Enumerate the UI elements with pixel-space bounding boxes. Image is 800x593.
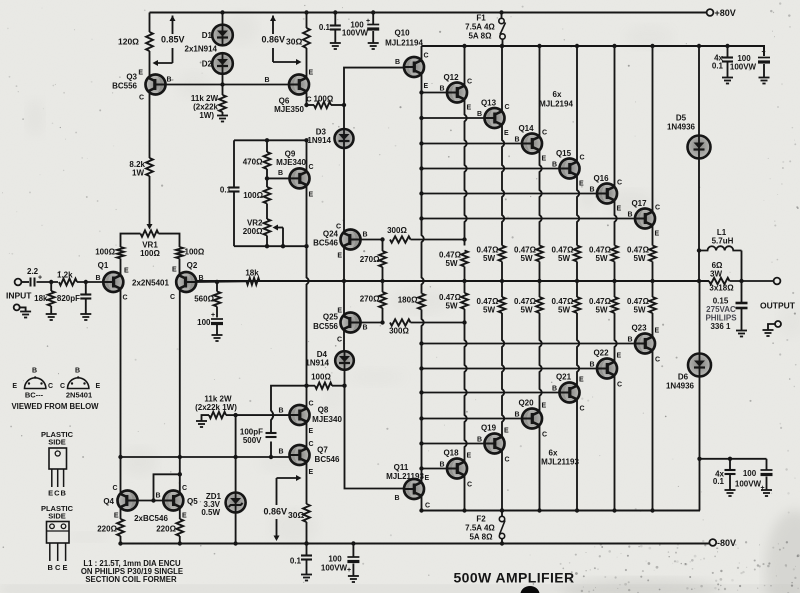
svg-text:120Ω: 120Ω xyxy=(118,37,139,47)
svg-text:Q12: Q12 xyxy=(443,73,459,82)
svg-text:180Ω: 180Ω xyxy=(398,296,418,305)
node D5 bus xyxy=(697,279,701,283)
svg-text:820pF: 820pF xyxy=(57,294,80,303)
svg-text:+: + xyxy=(347,567,351,574)
diode D1 xyxy=(212,25,233,46)
svg-text:E: E xyxy=(579,377,584,384)
node 270R bot xyxy=(380,320,384,324)
wire 100u gnd top xyxy=(372,31,374,43)
svg-text:6x: 6x xyxy=(553,90,562,99)
svg-text:E: E xyxy=(655,231,660,238)
node ZD1 rail xyxy=(233,541,237,545)
resistor 0.47R top Q16 xyxy=(611,246,618,262)
node 270R top xyxy=(380,237,384,241)
wire Q2 collector xyxy=(179,289,181,457)
wire bus to 0.47R bottom Q18 xyxy=(464,281,466,293)
node 100u rail bot xyxy=(351,541,355,545)
wire Q9 C xyxy=(306,140,308,172)
svg-text:MJE340: MJE340 xyxy=(312,415,342,424)
svg-text:220Ω: 220Ω xyxy=(97,525,117,534)
node box bottom wiper xyxy=(281,244,285,248)
ground 11k top xyxy=(217,116,228,122)
ground zobel xyxy=(736,331,747,337)
node base bus npn rung 2 xyxy=(419,141,423,145)
wire Q2b to 18k xyxy=(196,280,246,283)
svg-text:B: B xyxy=(96,275,101,282)
wire base to Q5 C xyxy=(154,474,180,500)
diode D2 xyxy=(212,53,233,74)
wire PNP collector rail xyxy=(422,510,701,512)
svg-text:C: C xyxy=(542,130,547,137)
svg-text:30Ω: 30Ω xyxy=(286,37,302,47)
capacitor 4x 0.1 bottom xyxy=(725,470,736,474)
svg-text:6x: 6x xyxy=(549,449,558,458)
svg-text:Q25: Q25 xyxy=(323,313,339,322)
resistor 180R xyxy=(418,294,425,310)
wire 100R ends xyxy=(307,104,315,106)
wire to Q10 base xyxy=(344,68,405,105)
svg-text:5W: 5W xyxy=(521,254,533,263)
svg-text:E: E xyxy=(542,403,547,410)
svg-text:C: C xyxy=(617,180,622,187)
svg-text:30Ω: 30Ω xyxy=(288,510,304,520)
capacitor 100pF xyxy=(266,433,277,437)
node Q24 bus xyxy=(342,279,346,283)
terminal -80V xyxy=(709,539,716,546)
svg-text:0.5W: 0.5W xyxy=(201,508,220,517)
svg-text:100Ω: 100Ω xyxy=(185,248,205,257)
svg-text:270Ω: 270Ω xyxy=(360,295,380,304)
transistor Q5 xyxy=(163,491,183,511)
transistor Q13 xyxy=(485,108,505,128)
node F1 top xyxy=(499,10,503,14)
transistor Q7 xyxy=(290,445,310,465)
svg-text:Q14: Q14 xyxy=(518,124,534,133)
svg-text:200Ω: 200Ω xyxy=(243,227,263,236)
wire VR1 wiper xyxy=(149,176,151,226)
node F2 bottom xyxy=(500,541,504,545)
svg-text:5.7uH: 5.7uH xyxy=(712,237,734,246)
wire Q1 collector xyxy=(120,289,122,457)
ground 100u top xyxy=(368,43,379,49)
svg-text:C: C xyxy=(307,97,312,104)
wire Q20 collector xyxy=(539,425,541,510)
svg-text:C: C xyxy=(309,441,314,448)
wire Q18 base rung xyxy=(422,468,448,470)
wire -80V rail xyxy=(121,542,709,544)
resistor 0.47R top Q13 xyxy=(499,246,506,262)
wire Q19 emitter xyxy=(502,313,504,437)
wire Q21 base rung xyxy=(422,392,560,394)
wire Q14 base rung xyxy=(422,143,523,145)
svg-text:Q18: Q18 xyxy=(443,449,459,458)
capacitor 0.1 top xyxy=(330,26,341,30)
svg-text:100Ω: 100Ω xyxy=(243,191,263,200)
svg-text:MJL21193: MJL21193 xyxy=(541,458,579,467)
wire Q20 base rung xyxy=(422,418,523,420)
svg-text:B: B xyxy=(75,368,80,375)
node Q12 rail xyxy=(462,44,466,48)
node Q7b Q2c xyxy=(178,455,182,459)
svg-text:E: E xyxy=(504,428,509,435)
wire D2 to base wire xyxy=(222,74,224,85)
svg-text:C: C xyxy=(505,104,510,111)
svg-text:5W: 5W xyxy=(521,306,533,315)
svg-text:100VW: 100VW xyxy=(342,29,369,38)
resistor 560R xyxy=(214,292,221,307)
svg-text:C: C xyxy=(139,95,144,102)
svg-text:Q4: Q4 xyxy=(103,497,114,506)
wire Q12 collector xyxy=(464,46,466,86)
svg-text:B: B xyxy=(278,449,283,456)
wire Q23 base rung xyxy=(422,343,636,345)
svg-text:+80V: +80V xyxy=(715,8,736,18)
node Q17 rail xyxy=(650,44,654,48)
node 0.1 rail top xyxy=(333,10,337,14)
svg-text:100Ω: 100Ω xyxy=(95,248,115,257)
wire D4 to node xyxy=(344,370,346,386)
fuse F2 xyxy=(499,516,505,538)
svg-text:BC546: BC546 xyxy=(315,455,340,464)
svg-text:E: E xyxy=(337,308,342,315)
resistor 0.47R bottom Q23 xyxy=(649,297,656,313)
resistor 100R bias xyxy=(264,187,271,204)
transistor Q6 xyxy=(289,75,309,95)
wire Q13 base rung xyxy=(422,117,485,119)
svg-text:100: 100 xyxy=(743,469,757,478)
svg-text:B: B xyxy=(627,212,632,219)
wire Q14 emitter xyxy=(540,150,542,245)
svg-text:+: + xyxy=(38,275,42,282)
svg-text:E: E xyxy=(467,105,472,112)
svg-text:5W: 5W xyxy=(596,254,608,263)
pinout 2N5401 semicircle xyxy=(68,378,89,389)
label 0.86V bottom xyxy=(263,507,287,516)
svg-text:-: - xyxy=(761,465,764,474)
wire Q3 base to Q6 base xyxy=(166,84,289,86)
wire Q14 collector xyxy=(539,46,541,137)
svg-text:Q5: Q5 xyxy=(187,497,198,506)
wire Q22 emitter xyxy=(615,313,617,362)
resistor 30R bottom xyxy=(303,504,310,522)
node Q7b Q1c xyxy=(118,455,122,459)
svg-text:1W): 1W) xyxy=(199,111,214,120)
wire VR2 box bottom xyxy=(234,245,307,247)
capacitor 100u bot xyxy=(347,557,359,562)
svg-text:100: 100 xyxy=(328,555,342,564)
svg-text:E: E xyxy=(114,513,119,520)
transistor Q1 xyxy=(103,272,123,292)
wire VR1 left xyxy=(121,234,141,247)
zener ZD1 xyxy=(226,493,246,513)
transistor Q11 xyxy=(404,479,424,499)
wire Q16 emitter xyxy=(615,200,617,245)
wire 100u gnd bot xyxy=(352,564,354,576)
svg-text:SIDE: SIDE xyxy=(48,438,66,447)
resistor 0.47R top Q14 xyxy=(536,246,543,262)
node Q20 rail xyxy=(537,508,541,512)
wire Q22 collector xyxy=(614,375,616,510)
wire bus to 0.47R bottom Q19 xyxy=(501,281,503,297)
svg-text:300Ω: 300Ω xyxy=(387,226,407,235)
svg-text:B: B xyxy=(589,362,594,369)
svg-text:MJE340: MJE340 xyxy=(276,158,306,167)
wire output bus xyxy=(196,280,709,282)
node box top 470R xyxy=(265,138,269,142)
node Q2 base 560R xyxy=(215,280,219,284)
wire 100u stub top xyxy=(372,13,374,25)
svg-text:1.2k: 1.2k xyxy=(57,271,73,280)
svg-text:Q23: Q23 xyxy=(631,324,647,333)
node D2 Q3 base xyxy=(220,82,224,86)
svg-text:0.1: 0.1 xyxy=(713,477,725,486)
wire 0.47R top Q12 to bus xyxy=(464,267,466,282)
wire Q21 collector xyxy=(576,399,578,510)
svg-text:MJL21194: MJL21194 xyxy=(385,39,423,48)
svg-text:B: B xyxy=(589,187,594,194)
node 270R bus xyxy=(380,279,384,283)
svg-text:1W: 1W xyxy=(132,169,144,178)
svg-text:Q1: Q1 xyxy=(98,261,109,270)
wire 100u br stub xyxy=(766,459,768,470)
svg-text:+: + xyxy=(761,485,765,492)
svg-text:C: C xyxy=(336,224,341,231)
wire D6 bottom xyxy=(699,377,701,511)
node base bus npn rung 3 xyxy=(419,166,423,170)
svg-text:0.1: 0.1 xyxy=(712,62,724,71)
svg-text:C: C xyxy=(617,382,622,389)
wire zobel gnd xyxy=(741,308,743,330)
svg-text:+: + xyxy=(366,18,370,25)
wire Q19 collector xyxy=(501,450,503,510)
wire 4x0.1 top gnd xyxy=(727,62,729,78)
node F2 top xyxy=(500,508,504,512)
wire Q1 emitter xyxy=(120,259,122,276)
svg-text:BC556: BC556 xyxy=(313,322,338,331)
svg-text:1N4936: 1N4936 xyxy=(667,123,696,132)
svg-text:+: + xyxy=(762,49,766,56)
node base bus pnp rung 3 xyxy=(419,390,423,394)
svg-text:5A 8Ω: 5A 8Ω xyxy=(468,32,492,41)
svg-text:0.86V: 0.86V xyxy=(264,507,288,517)
svg-text:C: C xyxy=(424,53,429,60)
wire 4x0.1 top stub xyxy=(727,46,729,58)
wire Q23 collector xyxy=(652,350,654,510)
svg-text:E: E xyxy=(309,192,314,199)
node zobel xyxy=(739,279,743,283)
svg-text:B: B xyxy=(514,412,519,419)
wire Q24 base rung xyxy=(360,239,383,241)
node 11k mid xyxy=(233,413,237,417)
svg-text:C: C xyxy=(182,485,187,492)
wire 100R vas bot ends xyxy=(307,385,316,387)
node D1 rail xyxy=(220,10,224,14)
transistor Q16 xyxy=(597,184,617,204)
wire F2 ends xyxy=(501,511,503,517)
svg-text:B: B xyxy=(552,162,557,169)
svg-text:C: C xyxy=(655,205,660,212)
diode D3 xyxy=(335,129,354,148)
svg-text:5W: 5W xyxy=(446,259,458,268)
node Q15 bus xyxy=(575,279,579,283)
resistor 100R Q1 emitter xyxy=(117,247,124,259)
svg-text:MJL2194: MJL2194 xyxy=(539,100,573,109)
node Q19 rail xyxy=(500,508,504,512)
ground 0.1 top xyxy=(330,43,341,49)
wire 100u to gnd xyxy=(216,325,218,335)
svg-text:C: C xyxy=(309,401,314,408)
wire 11k stub xyxy=(222,85,224,96)
node D4 100R xyxy=(342,384,346,388)
wire Q25 C to D4 xyxy=(343,329,345,356)
svg-text:B: B xyxy=(477,437,482,444)
wire input gnd stub xyxy=(20,307,26,311)
node Q4Q5 base xyxy=(151,498,155,502)
wire Q10 C xyxy=(421,46,423,61)
svg-text:E: E xyxy=(309,469,314,476)
wire Q24 E xyxy=(343,246,345,281)
wire after 2.2 xyxy=(37,281,59,283)
svg-text:B: B xyxy=(477,111,482,118)
capacitor 0.1 bot xyxy=(301,556,312,560)
wire 100R stub xyxy=(266,178,268,187)
node Q13 bus xyxy=(500,279,504,283)
svg-text:MJE350: MJE350 xyxy=(274,105,304,114)
node Q14 bus xyxy=(537,279,541,283)
node base bus npn rung 5 xyxy=(419,216,423,220)
wire Q16 base rung xyxy=(422,193,598,195)
node D5 rail xyxy=(697,44,701,48)
svg-text:Q10: Q10 xyxy=(394,29,410,38)
wire Q6 C stub xyxy=(306,91,308,105)
svg-text:D6: D6 xyxy=(678,373,689,382)
svg-text:2x1N914: 2x1N914 xyxy=(185,45,218,54)
svg-text:3W: 3W xyxy=(710,270,722,279)
svg-text:B: B xyxy=(552,386,557,393)
svg-text:E: E xyxy=(172,267,177,274)
label 0.85V xyxy=(160,35,183,44)
svg-text:BC---: BC--- xyxy=(25,391,44,400)
svg-text:C: C xyxy=(112,485,117,492)
wire Q25 E xyxy=(343,281,345,317)
resistor 30R top xyxy=(303,28,310,48)
svg-text:Q8: Q8 xyxy=(318,406,329,415)
transistor Q20 xyxy=(522,409,542,429)
ground 100u xyxy=(212,335,223,341)
svg-text:5W: 5W xyxy=(634,254,646,263)
ground input 18k xyxy=(46,314,57,320)
svg-text:B: B xyxy=(167,77,172,84)
node Q14 rail xyxy=(537,44,541,48)
svg-text:Q20: Q20 xyxy=(518,399,534,408)
svg-text:(2x22k 1W): (2x22k 1W) xyxy=(195,403,237,412)
svg-text:0.1: 0.1 xyxy=(290,557,302,566)
wire Q18 collector xyxy=(464,475,466,510)
wire Q8 E to Q7 C xyxy=(306,422,308,449)
resistor 0.47R top Q15 xyxy=(574,246,581,262)
svg-text:ECB: ECB xyxy=(48,489,67,498)
wire Q17 collector xyxy=(652,46,654,212)
svg-text:Q11: Q11 xyxy=(394,463,409,472)
svg-text:Q21: Q21 xyxy=(556,373,572,382)
node base bus npn rung 1 xyxy=(419,116,423,120)
svg-text:B: B xyxy=(514,137,519,144)
svg-text:100Ω: 100Ω xyxy=(311,373,331,382)
arrow 0.86V top xyxy=(272,16,274,35)
wire box left lower xyxy=(233,192,235,247)
svg-text:VIEWED FROM BELOW: VIEWED FROM BELOW xyxy=(11,402,99,411)
resistor 0.47R bottom Q22 xyxy=(611,297,618,313)
node caps 4x top xyxy=(725,44,729,48)
svg-text:B: B xyxy=(394,495,399,502)
node 0.1 rail bot xyxy=(304,541,308,545)
wire Q19 base rung xyxy=(422,443,485,445)
terminal output jack xyxy=(775,321,781,327)
wire 270R top stubs xyxy=(382,240,384,252)
node base bus pnp rung 4 xyxy=(419,366,423,370)
svg-text:2xBC546: 2xBC546 xyxy=(134,514,168,523)
capacitor 0.1 box xyxy=(229,188,240,192)
diode D6 xyxy=(688,354,711,377)
resistor 270R bottom xyxy=(379,292,386,308)
svg-text:+: + xyxy=(211,312,215,319)
wire Q16 collector xyxy=(614,46,616,187)
wire Q4 220 rail xyxy=(120,536,122,544)
fuse F1 xyxy=(499,18,506,39)
svg-text:Q24: Q24 xyxy=(323,230,339,239)
transistor Q24 xyxy=(341,230,361,250)
svg-text:500V: 500V xyxy=(243,436,262,445)
resistor 0.47R bottom Q20 xyxy=(536,297,543,313)
wire 18k to gnd xyxy=(50,282,52,291)
wire Q25 base rung xyxy=(360,322,383,324)
svg-text:E: E xyxy=(424,83,429,90)
node Q6 collector xyxy=(304,103,308,107)
node Q21 rail xyxy=(575,508,579,512)
svg-text:Q17: Q17 xyxy=(631,199,647,208)
capacitor 100u top right xyxy=(758,58,770,63)
resistor 270R top xyxy=(379,251,386,267)
svg-text:1N914: 1N914 xyxy=(305,359,329,368)
capacitor 100u feedback xyxy=(211,319,223,324)
svg-text:100: 100 xyxy=(197,318,211,327)
svg-text:C: C xyxy=(542,432,547,439)
svg-text:B: B xyxy=(278,408,283,415)
resistor 11k 2W mid xyxy=(209,412,226,418)
svg-text:0.1: 0.1 xyxy=(319,23,331,32)
svg-text:E: E xyxy=(182,513,187,520)
svg-text:100VW: 100VW xyxy=(730,63,757,72)
arrow 0.85V xyxy=(172,16,174,35)
svg-text:E: E xyxy=(579,181,584,188)
svg-text:560Ω: 560Ω xyxy=(194,295,214,304)
resistor 0.47R bottom Q19 xyxy=(499,297,506,313)
wire D5 column bot xyxy=(698,159,700,282)
svg-text:E: E xyxy=(504,130,509,137)
svg-text:B: B xyxy=(627,337,632,344)
svg-text:Q15: Q15 xyxy=(556,149,572,158)
wire 100R to D3 xyxy=(343,105,345,129)
ground 11k mid xyxy=(196,421,207,427)
wire D3 to Q24 xyxy=(343,148,345,234)
diode D5 xyxy=(688,136,711,159)
svg-text:18k: 18k xyxy=(245,269,259,278)
svg-text:B: B xyxy=(155,493,160,500)
ground output jack xyxy=(763,330,774,336)
resistor 300R bottom xyxy=(390,319,411,325)
svg-text:5A 8Ω: 5A 8Ω xyxy=(469,533,493,542)
svg-text:Q13: Q13 xyxy=(481,99,497,108)
